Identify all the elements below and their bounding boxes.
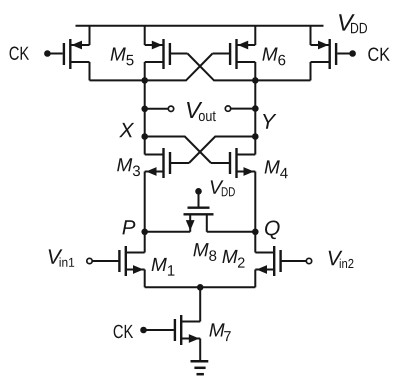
transistor PMOS clock switch left (CK) [50, 26, 89, 81]
node P junction dot [141, 229, 148, 236]
node VDD terminal dot for M8 gate [195, 188, 202, 195]
label node P [122, 220, 135, 234]
transistor M1 (NMOS input) [92, 246, 144, 287]
transistor M6 (PMOS) [213, 26, 256, 69]
wire cross-couple M6 gate to M5 drain [90, 54, 213, 81]
label M2 [222, 250, 237, 263]
label M8 [193, 243, 208, 256]
wire cross-couple X node to M4 gate [145, 137, 211, 164]
label node X [119, 123, 134, 137]
wire right inner rail (M6 drain down to M4 drain) [254, 62, 256, 155]
transistor M3 (NMOS) [145, 148, 189, 253]
terminal Vin1 open circle [87, 258, 92, 263]
wire cross-couple M5 gate to M6 drain [188, 54, 311, 81]
wire M8 drain to Q [207, 231, 256, 233]
wire cross-couple Y node to M3 gate [189, 137, 255, 164]
node junction dot M5 drain [141, 77, 148, 84]
terminal Vout right open circle [225, 106, 230, 111]
wire P to M8 source [145, 231, 191, 233]
label node Q [265, 221, 280, 240]
wire tail rail M1/M2 sources [145, 286, 256, 288]
node tail junction dot [197, 284, 204, 291]
terminal Vin2 open circle [306, 258, 311, 263]
wire Vout tap left [145, 108, 169, 110]
node X junction dot [141, 133, 148, 140]
node CK bottom terminal dot [140, 327, 147, 334]
wire left inner rail (M5 drain down to M3 drain) [144, 62, 146, 155]
label node Y [263, 114, 276, 129]
node junction dot Vout right [252, 105, 259, 112]
transistor M8 (NMOS equalizer, horizontal) [184, 193, 214, 232]
label M1 [152, 258, 167, 271]
wire VDD top rail [76, 25, 324, 27]
label CK (top left clock) [10, 47, 29, 60]
wire Vout tap right [231, 108, 256, 110]
label M7 [209, 323, 224, 336]
label VDD (top right supply) [339, 14, 355, 30]
label VDD (M8 gate supply) [211, 180, 224, 193]
transistor PMOS clock switch right (CK) [311, 26, 350, 81]
label CK (top right clock) [368, 48, 390, 61]
ground [191, 361, 209, 374]
node junction dot M6 drain [252, 77, 259, 84]
terminal Vout left open circle [168, 106, 173, 111]
transistor M4 (NMOS) [211, 148, 255, 253]
label M6 [262, 48, 277, 61]
node Y junction dot [252, 133, 259, 140]
label M4 [265, 160, 280, 173]
transistor M7 (NMOS tail clock) [147, 287, 201, 361]
node CK left terminal dot [44, 50, 51, 57]
label Vin1 [49, 249, 63, 263]
label Vout [187, 102, 202, 118]
transistor M5 (PMOS) [145, 26, 188, 69]
label CK (tail clock) [114, 325, 133, 338]
label M3 [117, 158, 132, 171]
node Q junction dot [252, 229, 259, 236]
node CK right terminal dot [349, 50, 356, 57]
node junction dot Vout left [141, 106, 148, 113]
label Vin2 [329, 251, 343, 265]
label M5 [111, 48, 126, 61]
transistor M2 (NMOS input) [255, 246, 306, 287]
